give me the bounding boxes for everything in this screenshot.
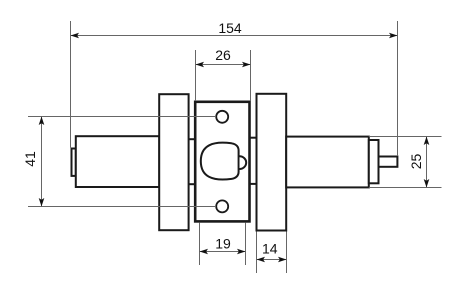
dimension 19: dimension line [200,251,246,253]
dimension 154: left extension line [70,21,72,148]
dimension 19: left arrow [200,249,209,255]
dimension 26: dimension line [196,64,251,66]
dimension 25: top extension line [369,136,442,138]
latch tube left lower edge [189,183,196,185]
dimension 41: top extension line [28,116,216,118]
dimension 19: right extension line [245,223,247,265]
spindle stub [379,157,398,167]
dimension 14: right extension line [286,232,288,274]
lower screw hole [216,200,228,212]
svg-text:14: 14 [262,241,278,257]
latch bolt [201,143,239,180]
dimension 19: left extension line [199,223,201,265]
svg-text:19: 19 [215,235,231,251]
dimension 41: top arrow [39,117,45,126]
left rose plate [159,94,188,230]
dimension 154: dimension line [71,35,398,37]
dimension 26: right extension line [250,50,252,101]
latch tube right upper edge [250,137,257,139]
svg-text:25: 25 [408,154,424,170]
dimension 19: right arrow [237,249,246,255]
dimension 41: bottom extension line [28,206,216,208]
dimension 154: right extension line [397,21,399,156]
upper screw hole [216,111,228,123]
dimension 41: bottom arrow [39,198,45,207]
svg-text:26: 26 [215,47,231,63]
dimension 25: bottom extension line [369,187,442,189]
dimension 25: bottom arrow [424,179,430,188]
dimension 14: left extension line [256,232,258,274]
dimension 25: dimension line [426,137,428,188]
svg-text:41: 41 [22,151,38,167]
latch tube right lower edge [250,183,257,185]
dimension 154: right arrow [389,33,398,39]
dimension 14: right arrow [278,257,287,263]
deadlatch plunger bump [240,156,247,169]
left thumbturn cylinder body [76,136,160,187]
dimension 25: top arrow [424,137,430,146]
dimension 41: dimension line [41,117,43,207]
latch tube left upper edge [189,138,196,140]
dimension 154: left arrow [71,33,80,39]
dimension 26: right arrow [242,62,251,68]
left end cap of thumbturn cylinder [72,149,76,176]
right cylinder cap [369,140,379,183]
svg-text:154: 154 [218,20,242,36]
right knob cylinder body [286,137,369,188]
faceplate [195,102,249,222]
dimension 26: left extension line [195,50,197,101]
right rose plate [257,94,287,231]
dimension 26: left arrow [196,62,205,68]
dimension 14: left arrow [257,257,266,263]
dimension 14: dimension line [257,259,287,261]
